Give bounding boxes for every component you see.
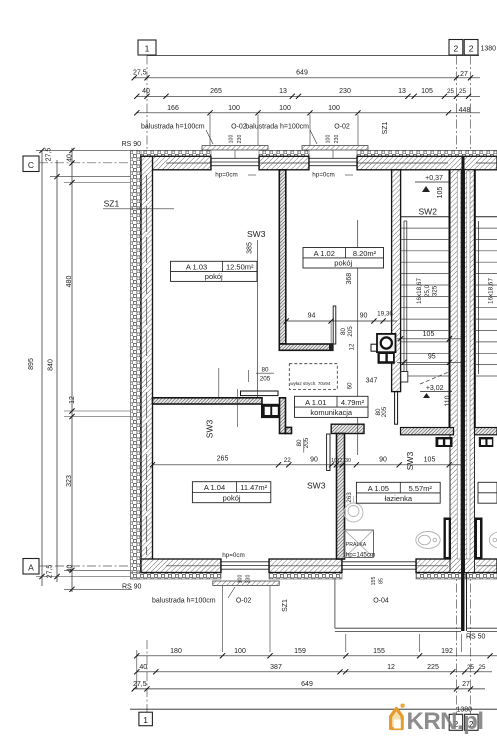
svg-text:4.79m²: 4.79m² <box>341 398 365 407</box>
terrace outline below bathroom <box>334 579 336 628</box>
svg-text:25: 25 <box>447 88 455 95</box>
svg-text:KRN.pl: KRN.pl <box>407 708 484 735</box>
extension line at 94/90 dim <box>330 322 332 343</box>
bathroom right wall unit1 <box>444 518 452 560</box>
svg-text:205: 205 <box>381 406 388 417</box>
svg-text:895: 895 <box>28 358 35 370</box>
svg-text:80: 80 <box>340 328 347 336</box>
extension lines from top dims to wall <box>209 115 211 146</box>
partition wall P3 corridor left <box>280 398 286 434</box>
svg-text:27,5: 27,5 <box>133 681 147 688</box>
exterior wall insulation left <box>131 150 142 579</box>
svg-text:A 1.03: A 1.03 <box>186 262 207 271</box>
svg-text:SW3: SW3 <box>307 481 326 491</box>
svg-text:90: 90 <box>379 457 387 464</box>
vertical dim 368 in A1.02 <box>346 220 358 455</box>
svg-text:205: 205 <box>260 376 271 383</box>
svg-text:12: 12 <box>337 458 343 464</box>
axis A chain line <box>39 565 150 567</box>
unit2 stairwell left face line <box>474 170 476 428</box>
svg-text:2: 2 <box>454 44 459 54</box>
stair dim 105 <box>397 331 462 341</box>
svg-text:105: 105 <box>423 331 435 338</box>
svg-text:hp=0cm: hp=0cm <box>312 172 335 179</box>
under-stair wall strip unit1 <box>401 428 454 435</box>
door leaf A1.03 <box>241 391 279 396</box>
svg-text:SW3: SW3 <box>405 452 415 471</box>
vent block bathroom unit1 <box>436 437 453 447</box>
svg-text:C: C <box>28 160 34 170</box>
bottom dimension line 180/100/159/155/192 <box>136 655 497 657</box>
axis line bottom <box>130 708 497 710</box>
washbasin bathroom <box>344 496 363 522</box>
svg-text:105: 105 <box>437 187 444 199</box>
level label +0,37 <box>415 175 449 192</box>
svg-text:230: 230 <box>339 88 351 95</box>
svg-text:27: 27 <box>460 71 468 78</box>
axis C chain line <box>39 162 178 164</box>
svg-text:pokój: pokój <box>205 272 223 281</box>
svg-text:205: 205 <box>347 326 354 337</box>
grid bubble 1 bottom <box>139 712 153 726</box>
party wall unit1 side <box>450 170 462 573</box>
svg-text:265: 265 <box>217 456 229 463</box>
svg-text:SW3: SW3 <box>205 420 215 439</box>
svg-text:323: 323 <box>66 475 73 487</box>
door label 80/205 A1.03 <box>249 367 275 383</box>
svg-text:27: 27 <box>462 681 470 688</box>
window O-02 top left <box>211 150 259 170</box>
svg-text:155: 155 <box>373 648 385 655</box>
partition wall P2 between A1.03 and A1.04 <box>153 398 263 404</box>
room label A1.03 pokoj <box>171 261 258 281</box>
svg-text:O-02: O-02 <box>236 598 252 605</box>
axis 1 vertical chain line <box>146 56 148 152</box>
room label A1.05 lazienka <box>356 482 440 503</box>
left extension lines <box>36 149 131 151</box>
room label A1.01 komunikacja <box>295 396 369 417</box>
svg-text:SW3: SW3 <box>247 229 266 239</box>
window O-02 top right <box>309 150 357 170</box>
axis 2b vertical chain line <box>470 56 472 715</box>
door label 80/205 A1.02 rotated <box>340 326 356 351</box>
partition wall P4 between A1.04 and bathroom <box>337 434 345 560</box>
svg-text:192: 192 <box>441 648 453 655</box>
svg-text:95: 95 <box>428 354 436 361</box>
svg-text:hp=0cm: hp=0cm <box>215 172 238 179</box>
svg-text:448: 448 <box>459 107 471 114</box>
svg-text:PRALKA: PRALKA <box>346 542 367 548</box>
bottom dimension line 27,5/649/27 <box>133 688 485 690</box>
grid bubble 2 top left <box>449 40 463 56</box>
watermark KRN.pl <box>391 704 484 735</box>
attic access hatch dashed <box>289 364 337 390</box>
door leaf A1.04 <box>327 434 330 471</box>
svg-text:13: 13 <box>279 88 287 95</box>
svg-text:pokój: pokój <box>334 259 352 268</box>
left dimension line 840 <box>56 160 58 582</box>
svg-text:40: 40 <box>67 154 74 162</box>
svg-text:100: 100 <box>238 575 244 584</box>
staircase unit2 treads <box>475 217 497 376</box>
svg-text:230: 230 <box>334 135 340 144</box>
interior dim line 265/22/90/10/12/30/90/105 <box>150 456 462 468</box>
svg-text:łazienka: łazienka <box>385 494 413 503</box>
unit2 room label box partial <box>478 482 497 503</box>
axis line top between grid bubbles 1 and 2 <box>147 55 479 57</box>
door label 80/205 A1.04 rotated <box>296 437 310 452</box>
svg-text:94: 94 <box>308 313 316 320</box>
staircase railing unit1 <box>401 221 408 382</box>
svg-text:+0,37: +0,37 <box>425 175 443 182</box>
svg-text:hp=145cm: hp=145cm <box>346 552 376 559</box>
staircase SW2 unit1 treads <box>401 217 450 376</box>
svg-text:SZ1: SZ1 <box>282 599 289 612</box>
party wall extension to terrace <box>461 573 463 632</box>
top dimension line 40/265/13/230/13/105/25/25 <box>136 95 480 97</box>
top dimension line 27,5 / 649 / 27 <box>133 77 480 79</box>
left dimension line 895 <box>41 150 43 586</box>
svg-text:5.57m²: 5.57m² <box>409 484 433 493</box>
svg-text:12: 12 <box>69 396 76 404</box>
window O-04 bottom bathroom <box>342 559 416 573</box>
svg-text:+3,02: +3,02 <box>426 385 444 392</box>
staircase unit2 railing hint <box>478 221 480 374</box>
svg-text:25: 25 <box>459 88 467 95</box>
svg-text:balustrada h=100cm: balustrada h=100cm <box>141 124 205 131</box>
vent block bathroom unit2 <box>479 437 494 447</box>
A1.02 door leaf <box>333 306 336 344</box>
exterior wall insulation top <box>131 150 212 156</box>
exterior wall structure bottom <box>141 559 221 573</box>
bathroom door leaf <box>395 392 398 424</box>
stair wall SZ1 vertical <box>392 170 401 392</box>
stair dim 95 <box>397 354 462 365</box>
svg-text:wyłaz strych. 70x94: wyłaz strych. 70x94 <box>290 381 331 386</box>
svg-text:40: 40 <box>142 88 150 95</box>
svg-text:649: 649 <box>296 70 308 77</box>
washing machine PRALKA dashed <box>345 530 374 558</box>
partition wall A1.02 bottom leg <box>279 344 333 350</box>
staircase direction dashed line <box>420 371 451 384</box>
vertical dim 385 in A1.03 <box>247 240 258 397</box>
axis 2a vertical chain line <box>456 56 458 715</box>
grid bubble 2 bottom right <box>465 714 479 730</box>
balcony balustrade top left <box>202 146 268 150</box>
svg-text:90: 90 <box>360 313 368 320</box>
svg-text:O-02: O-02 <box>334 124 350 131</box>
wall core seam lines <box>166 162 211 164</box>
grid bubble C left <box>23 156 39 172</box>
svg-text:27,5: 27,5 <box>133 70 147 77</box>
svg-text:A 1.02: A 1.02 <box>314 249 335 258</box>
svg-text:16x18,67: 16x18,67 <box>488 278 495 304</box>
extension lines bottom <box>222 586 224 652</box>
svg-text:105: 105 <box>421 88 433 95</box>
boiler unit <box>371 334 396 352</box>
terrace outline unit2 <box>467 627 497 629</box>
svg-text:40: 40 <box>139 664 147 671</box>
svg-text:A 1.01: A 1.01 <box>305 398 326 407</box>
balcony balustrade top right <box>302 146 368 150</box>
label SZ1 left with leader <box>103 199 174 209</box>
svg-text:230: 230 <box>237 135 243 144</box>
svg-text:225: 225 <box>427 664 439 671</box>
svg-text:SW2: SW2 <box>419 207 438 217</box>
svg-text:80: 80 <box>296 439 303 447</box>
top dimension line 166/100/100/100/448 <box>136 112 480 114</box>
svg-text:368: 368 <box>346 273 353 285</box>
svg-text:180: 180 <box>170 648 182 655</box>
svg-text:2: 2 <box>469 44 474 54</box>
flue block below boiler <box>378 352 395 364</box>
extension line above P2 <box>218 368 220 397</box>
svg-text:25,0: 25,0 <box>424 284 431 297</box>
partition wall P1 between A1.03 and A1.02 <box>279 170 286 344</box>
svg-text:325: 325 <box>432 285 439 296</box>
svg-text:16x18,67: 16x18,67 <box>416 278 423 304</box>
svg-text:265: 265 <box>210 88 222 95</box>
left dimension chain 27,5/40/480/12/323/40/27,5 <box>71 148 73 592</box>
svg-text:100: 100 <box>328 105 340 112</box>
svg-text:155: 155 <box>371 577 377 586</box>
svg-text:25: 25 <box>478 664 486 671</box>
balcony balustrade bottom <box>213 581 279 585</box>
svg-text:100: 100 <box>279 105 291 112</box>
svg-text:480: 480 <box>66 276 73 288</box>
svg-text:RS 50: RS 50 <box>466 634 486 641</box>
svg-text:230: 230 <box>246 575 252 584</box>
svg-text:komunikacja: komunikacja <box>310 408 353 417</box>
svg-text:110: 110 <box>445 395 452 406</box>
door frame block A1.03/A1.04 doors <box>261 404 280 418</box>
svg-text:100: 100 <box>234 648 246 655</box>
svg-text:649: 649 <box>301 681 313 688</box>
svg-text:385: 385 <box>247 242 254 254</box>
svg-text:25: 25 <box>467 664 475 671</box>
svg-text:387: 387 <box>270 664 282 671</box>
svg-text:12: 12 <box>349 343 356 351</box>
grid bubble 1 top <box>138 40 156 55</box>
svg-text:85: 85 <box>379 578 385 584</box>
svg-text:347: 347 <box>366 378 378 385</box>
exterior wall insulation bottom <box>131 573 222 580</box>
toilet unit1 <box>416 532 440 549</box>
partition wall P3 foot <box>286 427 292 433</box>
svg-text:1380: 1380 <box>481 46 497 53</box>
grid bubble 2 top right <box>464 40 478 56</box>
svg-text:pokój: pokój <box>223 493 241 502</box>
svg-text:105: 105 <box>424 457 436 464</box>
party wall unit2 side <box>465 170 475 573</box>
svg-text:13: 13 <box>398 88 406 95</box>
toilet unit2 partial <box>489 532 497 549</box>
svg-text:A 1.05: A 1.05 <box>368 484 389 493</box>
door label 80/205 bathroom rotated <box>375 406 388 417</box>
svg-text:SZ1: SZ1 <box>104 199 120 209</box>
room label A1.02 pokoj <box>303 248 384 269</box>
svg-text:hp=0cm: hp=0cm <box>222 552 245 559</box>
svg-text:19,36: 19,36 <box>377 311 393 318</box>
svg-text:90: 90 <box>310 457 318 464</box>
svg-text:A: A <box>28 562 34 572</box>
dim line 94/90/19,36 <box>284 311 397 324</box>
exterior wall structure left <box>141 156 153 572</box>
svg-text:RS 90: RS 90 <box>122 141 142 148</box>
svg-text:12.50m²: 12.50m² <box>226 262 254 271</box>
svg-text:263: 263 <box>346 492 353 503</box>
svg-text:12: 12 <box>387 664 395 671</box>
svg-text:159: 159 <box>294 648 306 655</box>
svg-text:80: 80 <box>261 367 269 374</box>
svg-text:27,5: 27,5 <box>46 148 53 162</box>
svg-text:O-04: O-04 <box>373 598 389 605</box>
grid bubble A left <box>23 559 39 575</box>
svg-text:60: 60 <box>346 382 353 390</box>
corridor-bathroom wall <box>331 424 364 433</box>
window O-02 bottom <box>221 559 269 573</box>
svg-text:balustrada h=100cm: balustrada h=100cm <box>245 124 309 131</box>
bottom dimension line 40/387/12/225/25/25 <box>136 671 492 673</box>
svg-text:11.47m²: 11.47m² <box>240 483 267 492</box>
svg-text:1: 1 <box>143 715 148 725</box>
svg-text:SZ1: SZ1 <box>382 121 389 134</box>
svg-text:22: 22 <box>284 457 292 464</box>
svg-text:30: 30 <box>345 458 351 464</box>
svg-text:A 1.04: A 1.04 <box>204 483 225 492</box>
stairwell right face line <box>449 170 451 428</box>
svg-text:100: 100 <box>326 135 332 144</box>
level label +3,02 <box>420 385 452 398</box>
bathroom wall unit2 <box>475 518 483 560</box>
svg-text:840: 840 <box>48 359 55 371</box>
svg-text:8.20m²: 8.20m² <box>353 249 377 258</box>
svg-text:balustrada h=100cm: balustrada h=100cm <box>152 598 216 605</box>
party wall inner white channels <box>457 171 460 559</box>
svg-text:40: 40 <box>67 565 74 573</box>
svg-text:166: 166 <box>167 105 179 112</box>
svg-text:RS 90: RS 90 <box>122 584 142 591</box>
svg-text:100: 100 <box>229 135 235 144</box>
party wall expansion joint <box>462 156 465 631</box>
extension line in A1.03 near door <box>237 389 239 427</box>
under-stair wall strip unit2 <box>475 428 497 435</box>
svg-text:100: 100 <box>228 105 240 112</box>
room label A1.04 pokoj <box>192 482 270 503</box>
grid bubble 2 bottom left <box>449 714 463 730</box>
exterior wall structure top <box>141 156 211 170</box>
svg-text:1: 1 <box>145 44 150 54</box>
